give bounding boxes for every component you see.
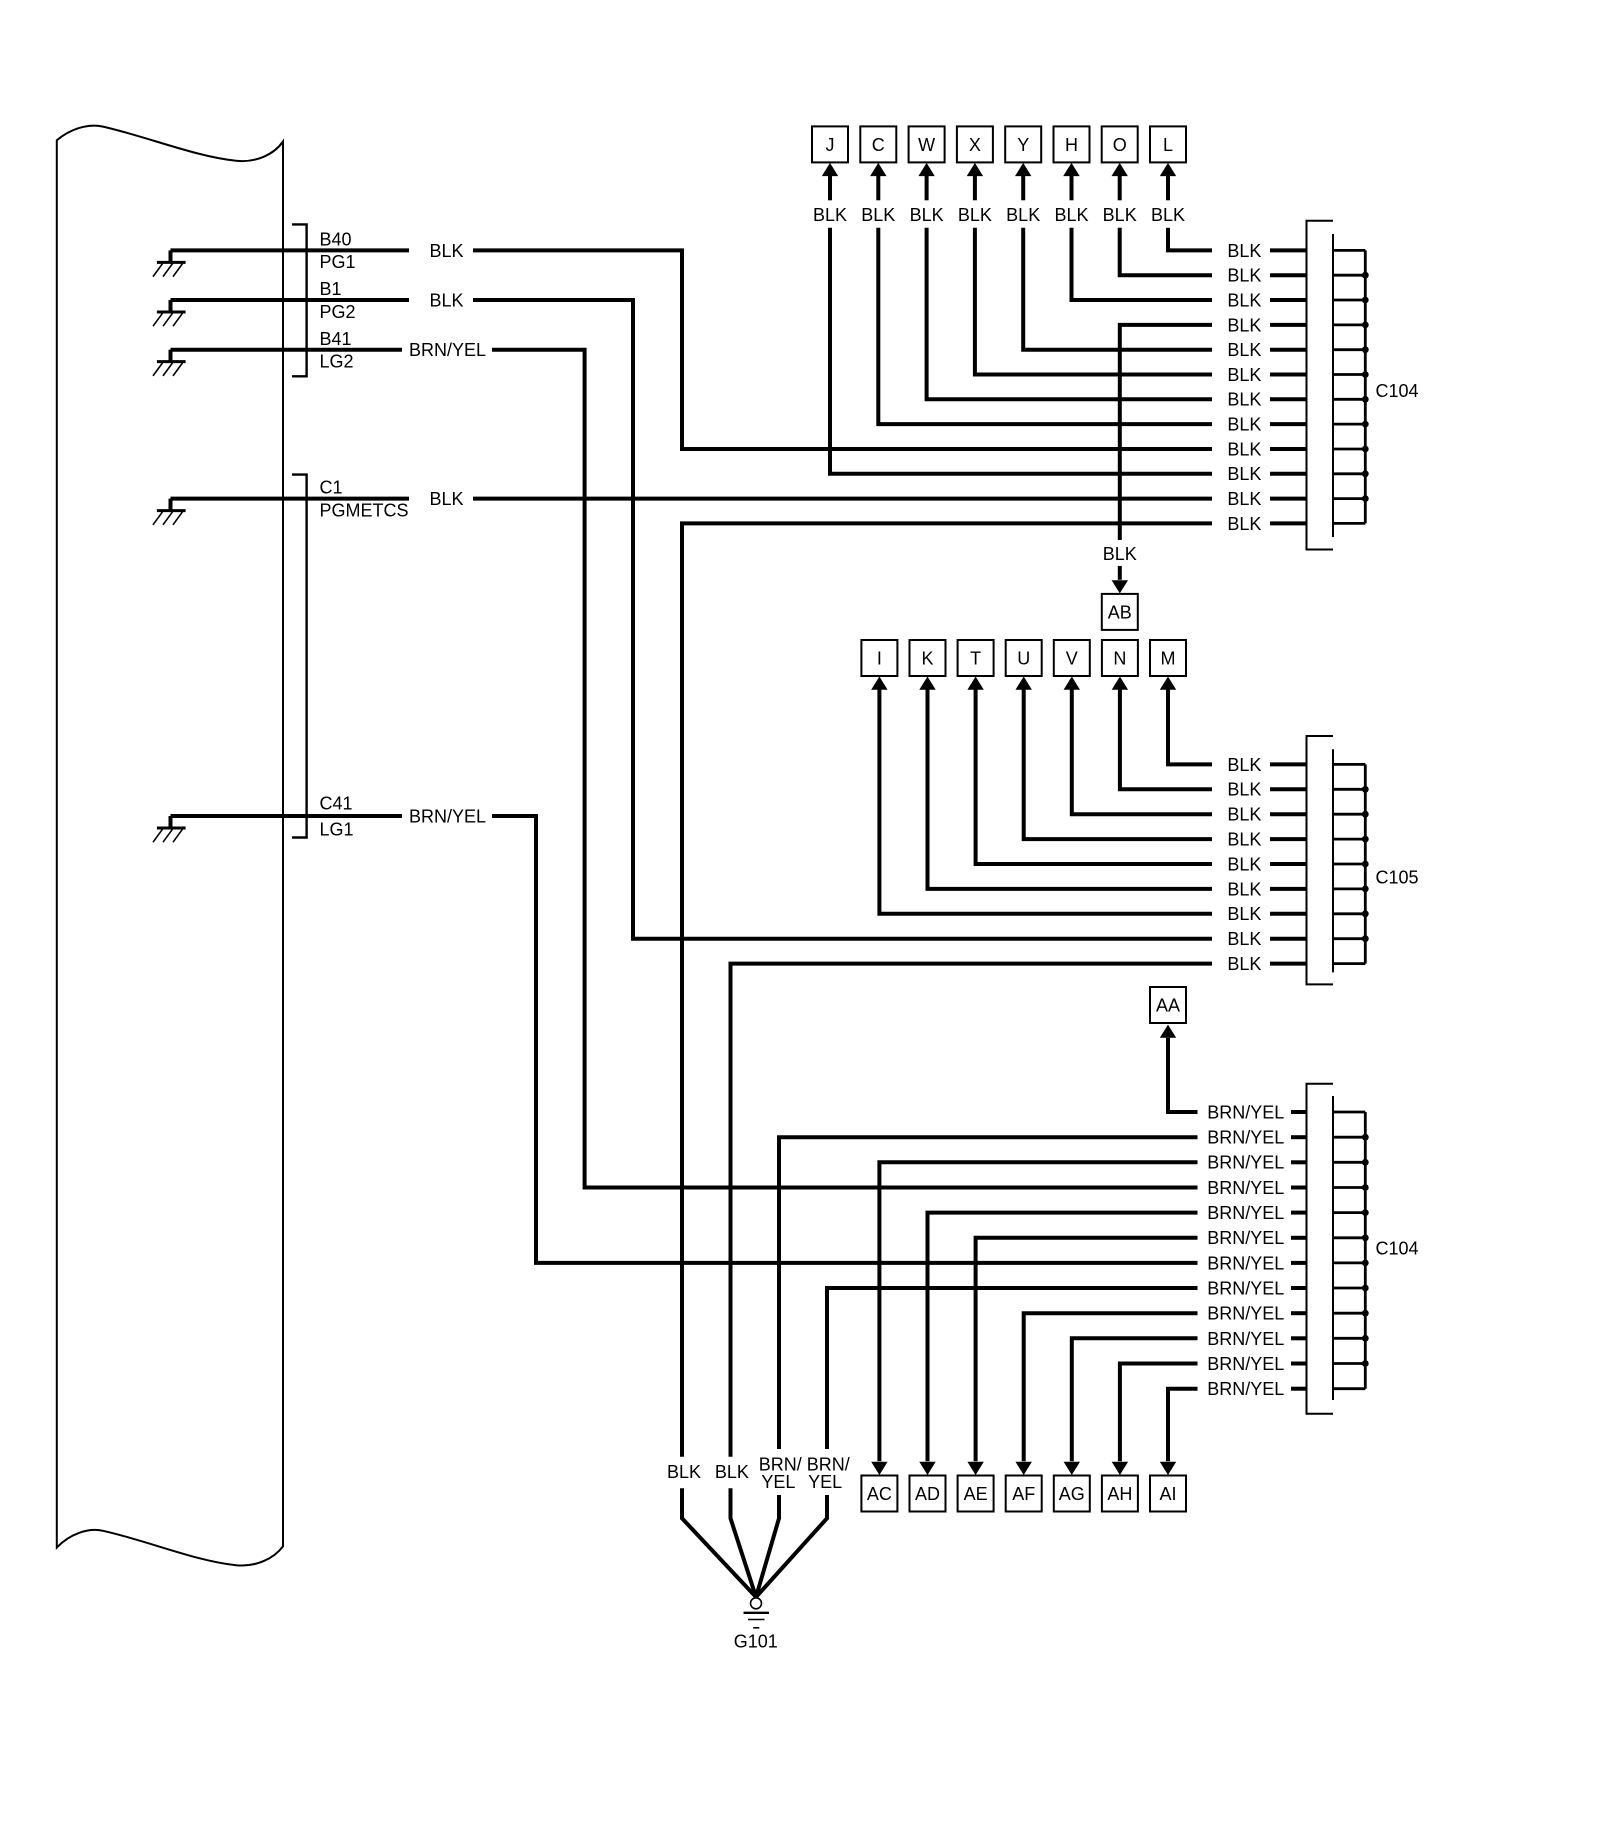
- wire C104 row4 to AB: [1270, 323, 1307, 327]
- svg-text:BLK: BLK: [1227, 315, 1261, 335]
- node box J: [812, 126, 848, 162]
- svg-text:BLK: BLK: [1227, 415, 1261, 435]
- wire bottom C104 row2 BRN/YEL down to G101: [1291, 1135, 1307, 1139]
- wire stem O BLK to C104 row2: [1118, 175, 1122, 200]
- ground symbol at pin C1/PGMETCS: [169, 499, 173, 511]
- node box K: [910, 640, 946, 676]
- svg-text:BRN/YEL: BRN/YEL: [1207, 1253, 1284, 1273]
- wire bottom C104 row8 BRN/YEL down to G101: [1291, 1286, 1307, 1290]
- svg-text:BLK: BLK: [1151, 205, 1185, 225]
- module outline (torn-edge ECM block): [57, 126, 283, 1566]
- svg-text:C104: C104: [1376, 1239, 1419, 1259]
- ground symbol at pin C41/LG1: [169, 816, 173, 828]
- svg-text:N: N: [1113, 648, 1126, 668]
- arrow into J: [822, 163, 838, 176]
- node box AG: [1054, 1476, 1090, 1512]
- svg-text:BLK: BLK: [1227, 365, 1261, 385]
- svg-text:BRN/YEL: BRN/YEL: [1207, 1153, 1284, 1173]
- wire stem C BLK to C104 row8: [876, 175, 880, 200]
- svg-text:BLK: BLK: [429, 241, 463, 261]
- arrow into AA: [1160, 1025, 1176, 1038]
- svg-text:AE: AE: [964, 1484, 988, 1504]
- svg-text:BLK: BLK: [1227, 390, 1261, 410]
- svg-text:BLK: BLK: [1227, 266, 1261, 286]
- wire C105 row9 BLK down to G101: [1270, 962, 1307, 966]
- node box X: [957, 126, 993, 162]
- svg-text:BLK: BLK: [861, 205, 895, 225]
- svg-text:I: I: [877, 648, 882, 668]
- node box L: [1150, 126, 1186, 162]
- node box V: [1054, 640, 1090, 676]
- svg-text:PG1: PG1: [320, 252, 356, 272]
- svg-text:BLK: BLK: [1054, 205, 1088, 225]
- svg-text:BLK: BLK: [813, 205, 847, 225]
- connector C104 shell: [1307, 1084, 1334, 1414]
- svg-text:LG2: LG2: [320, 352, 354, 372]
- svg-text:BLK: BLK: [1227, 241, 1261, 261]
- wire bottom C104 row10 BRN/YEL to AG: [1291, 1336, 1307, 1340]
- svg-text:BLK: BLK: [958, 205, 992, 225]
- svg-text:BLK: BLK: [1103, 544, 1137, 564]
- svg-text:BLK: BLK: [1227, 340, 1261, 360]
- svg-text:BRN/YEL: BRN/YEL: [1207, 1178, 1284, 1198]
- svg-text:U: U: [1017, 648, 1030, 668]
- wire bottom C104 row11 BRN/YEL to AH: [1291, 1362, 1307, 1366]
- arrow into N: [1112, 677, 1128, 690]
- arrow into AG: [1064, 1462, 1080, 1475]
- svg-text:BLK: BLK: [1103, 205, 1137, 225]
- arrow into I: [871, 677, 887, 690]
- arrow into AI: [1160, 1462, 1176, 1475]
- svg-text:G101: G101: [734, 1632, 778, 1652]
- ground symbol at pin B1/PG2: [169, 300, 173, 312]
- node box AH: [1102, 1476, 1138, 1512]
- ground G101: [751, 1598, 762, 1609]
- svg-text:BRN/YEL: BRN/YEL: [1207, 1279, 1284, 1299]
- node box AI: [1150, 1476, 1186, 1512]
- node box AE: [958, 1476, 994, 1512]
- svg-text:AC: AC: [867, 1484, 892, 1504]
- svg-text:W: W: [918, 135, 935, 155]
- arrow into Y: [1015, 163, 1031, 176]
- arrow into AC: [871, 1462, 887, 1475]
- node box AF: [1006, 1476, 1042, 1512]
- svg-text:B40: B40: [320, 230, 352, 250]
- node box N: [1102, 640, 1138, 676]
- node box O: [1102, 126, 1138, 162]
- svg-text:O: O: [1113, 135, 1127, 155]
- svg-text:AA: AA: [1156, 995, 1180, 1015]
- svg-text:BRN/YEL: BRN/YEL: [1207, 1354, 1284, 1374]
- svg-text:BLK: BLK: [1227, 830, 1261, 850]
- wire bottom C104 row9 BRN/YEL to AF: [1291, 1311, 1307, 1315]
- svg-text:BLK: BLK: [1006, 205, 1040, 225]
- arrow into X: [967, 163, 983, 176]
- wire C1 BLK to C104 row11: [171, 497, 1213, 501]
- svg-text:YEL: YEL: [808, 1472, 842, 1492]
- svg-text:C: C: [872, 135, 885, 155]
- svg-text:Y: Y: [1017, 135, 1029, 155]
- svg-text:BRN/YEL: BRN/YEL: [1207, 1102, 1284, 1122]
- svg-text:BLK: BLK: [715, 1462, 749, 1482]
- svg-text:M: M: [1161, 648, 1176, 668]
- wire stem M BLK to C105 row1: [1168, 689, 1212, 764]
- arrow into AB: [1112, 580, 1128, 593]
- svg-text:BLK: BLK: [1227, 439, 1261, 459]
- wire stem V BLK to C105 row3: [1072, 689, 1212, 814]
- wire stem K BLK to C105 row6: [928, 689, 1213, 889]
- arrow into AE: [967, 1462, 983, 1475]
- wire stem I BLK to C105 row7: [879, 689, 1212, 914]
- arrow into O: [1112, 163, 1128, 176]
- svg-text:BLK: BLK: [1227, 290, 1261, 310]
- wire B41 BRN/YEL to bottom C104 row4: [171, 350, 1198, 1188]
- svg-text:C105: C105: [1376, 868, 1419, 888]
- bracket pins B40..LG2: [292, 224, 307, 376]
- svg-text:YEL: YEL: [761, 1472, 795, 1492]
- svg-text:BRN/YEL: BRN/YEL: [409, 340, 486, 360]
- wire C41 BRN/YEL to bottom C104 row7: [171, 816, 1198, 1263]
- node box C: [860, 126, 896, 162]
- svg-text:BLK: BLK: [429, 489, 463, 509]
- svg-text:V: V: [1066, 648, 1078, 668]
- svg-text:BLK: BLK: [1227, 854, 1261, 874]
- svg-text:B1: B1: [320, 279, 342, 299]
- wire stem H BLK to C104 row3: [1070, 175, 1074, 200]
- svg-text:BLK: BLK: [1227, 489, 1261, 509]
- arrow into AF: [1016, 1462, 1032, 1475]
- svg-text:BLK: BLK: [1227, 929, 1261, 949]
- arrow into L: [1160, 163, 1176, 176]
- svg-text:PG2: PG2: [320, 302, 356, 322]
- wire AA up from bottom C104 row1: [1291, 1110, 1307, 1114]
- svg-text:BRN/YEL: BRN/YEL: [409, 806, 486, 826]
- wire stem N BLK to C105 row2: [1120, 689, 1212, 789]
- svg-text:BLK: BLK: [667, 1462, 701, 1482]
- svg-text:AH: AH: [1107, 1484, 1132, 1504]
- svg-text:K: K: [921, 648, 933, 668]
- node box AC: [861, 1476, 897, 1512]
- wire C104 row12 BLK down to G101: [1270, 521, 1307, 525]
- connector C104 shell: [1307, 221, 1334, 550]
- svg-text:BLK: BLK: [429, 290, 463, 310]
- svg-text:H: H: [1065, 135, 1078, 155]
- arrow into AD: [919, 1462, 935, 1475]
- svg-text:BRN/YEL: BRN/YEL: [1207, 1304, 1284, 1324]
- arrow into U: [1016, 677, 1032, 690]
- svg-text:BLK: BLK: [1227, 780, 1261, 800]
- wire bottom C104 row5 BRN/YEL to AD: [1291, 1211, 1307, 1215]
- arrow into T: [967, 677, 983, 690]
- arrow into M: [1160, 677, 1176, 690]
- connector C105 shell: [1307, 736, 1334, 984]
- svg-text:AD: AD: [915, 1484, 940, 1504]
- wire stem T BLK to C105 row5: [976, 689, 1212, 864]
- svg-text:BLK: BLK: [1227, 954, 1261, 974]
- svg-text:C104: C104: [1376, 381, 1419, 401]
- arrow into V: [1064, 677, 1080, 690]
- svg-text:PGMETCS: PGMETCS: [320, 500, 409, 520]
- wire bottom C104 row6 BRN/YEL to AE: [1291, 1236, 1307, 1240]
- arrow into W: [918, 163, 934, 176]
- arrow into C: [870, 163, 886, 176]
- node box I: [861, 640, 897, 676]
- node box M: [1150, 640, 1186, 676]
- node box W: [909, 126, 945, 162]
- svg-text:BLK: BLK: [1227, 514, 1261, 534]
- svg-text:AI: AI: [1159, 1484, 1176, 1504]
- wire B40 BLK to C104 row9: [171, 250, 1213, 449]
- svg-text:BRN/YEL: BRN/YEL: [1207, 1203, 1284, 1223]
- svg-text:LG1: LG1: [320, 819, 354, 839]
- wire stem J BLK to C104 row10: [828, 175, 832, 200]
- svg-text:B41: B41: [320, 329, 352, 349]
- wire bottom C104 row3 BRN/YEL to AC: [1291, 1160, 1307, 1164]
- bracket pins C1..LG1: [292, 475, 307, 838]
- wire stem W BLK to C104 row7: [925, 175, 929, 200]
- wire stem Y BLK to C104 row5: [1021, 175, 1025, 200]
- svg-text:C41: C41: [320, 793, 353, 813]
- node box U: [1006, 640, 1042, 676]
- node box AA: [1150, 987, 1186, 1023]
- svg-text:L: L: [1163, 135, 1173, 155]
- svg-text:BLK: BLK: [1227, 904, 1261, 924]
- svg-text:AB: AB: [1108, 602, 1132, 622]
- svg-text:J: J: [826, 135, 835, 155]
- svg-text:BLK: BLK: [910, 205, 944, 225]
- svg-text:BLK: BLK: [1227, 879, 1261, 899]
- svg-text:T: T: [970, 648, 981, 668]
- svg-text:BRN/YEL: BRN/YEL: [1207, 1128, 1284, 1148]
- svg-text:C1: C1: [320, 478, 343, 498]
- arrow into H: [1063, 163, 1080, 176]
- node box Y: [1005, 126, 1041, 162]
- node box AD: [910, 1476, 946, 1512]
- node box H: [1054, 126, 1090, 162]
- svg-text:AG: AG: [1059, 1484, 1085, 1504]
- svg-text:X: X: [969, 135, 981, 155]
- svg-text:BLK: BLK: [1227, 755, 1261, 775]
- wire stem L BLK to C104 row1: [1166, 175, 1170, 200]
- wire B1 BLK to C105 row8: [171, 300, 1213, 939]
- wire bottom C104 row12 BRN/YEL to AI: [1291, 1387, 1307, 1391]
- connector C104 pins and bus: [1333, 249, 1365, 252]
- svg-text:AF: AF: [1012, 1484, 1035, 1504]
- ground symbol at pin B40/PG1: [169, 250, 173, 262]
- svg-text:BRN/YEL: BRN/YEL: [1207, 1379, 1284, 1399]
- svg-text:BLK: BLK: [1227, 805, 1261, 825]
- arrow into AH: [1112, 1462, 1128, 1475]
- svg-text:BRN/YEL: BRN/YEL: [1207, 1228, 1284, 1248]
- connector C105 pins and bus: [1333, 763, 1365, 766]
- node box AB: [1102, 594, 1138, 630]
- svg-text:BRN/YEL: BRN/YEL: [1207, 1329, 1284, 1349]
- wire stem X BLK to C104 row6: [973, 175, 977, 200]
- ground symbol at pin B41/LG2: [169, 350, 173, 362]
- arrow into K: [919, 677, 935, 690]
- node box T: [958, 640, 994, 676]
- wire stem U BLK to C105 row4: [1024, 689, 1212, 839]
- svg-text:BLK: BLK: [1227, 464, 1261, 484]
- connector C104 pins and bus: [1333, 1111, 1365, 1114]
